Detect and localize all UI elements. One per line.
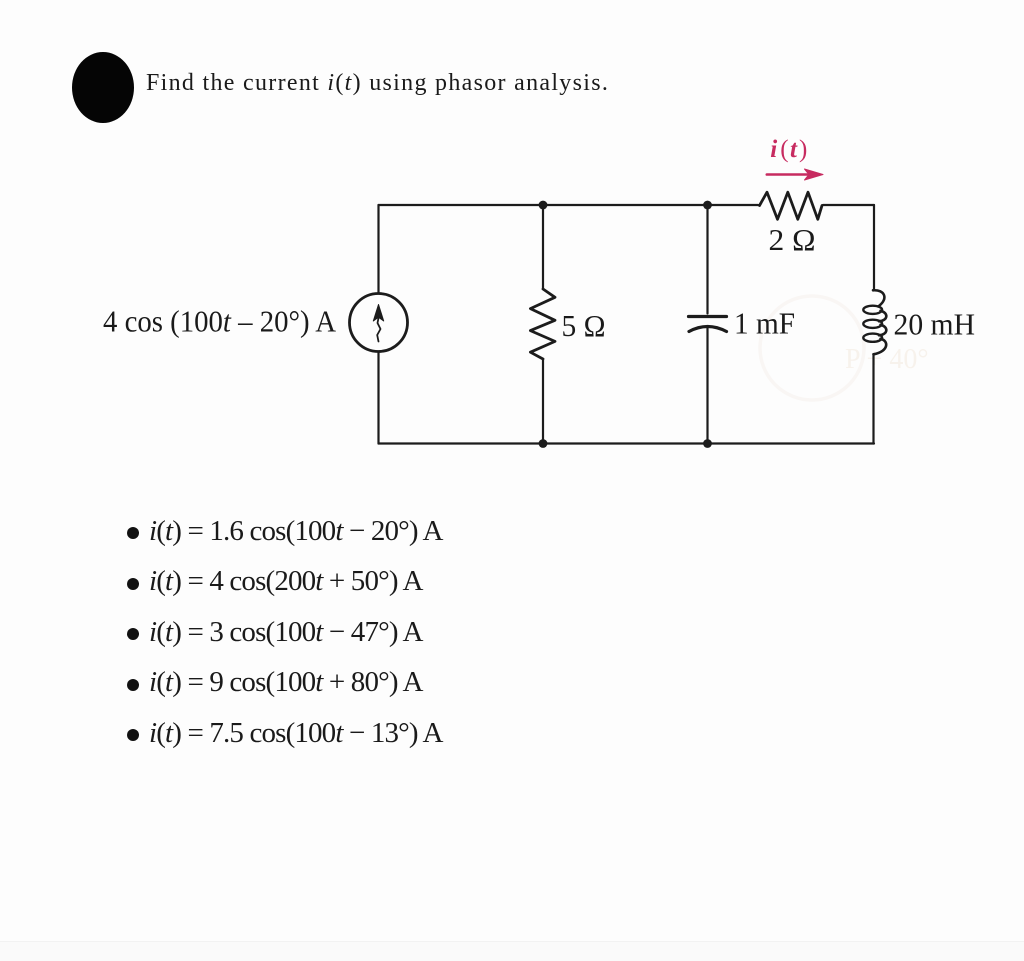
- inductor L1 loop ellipse 3: [863, 334, 882, 342]
- inductor L1 bump 4: [874, 339, 887, 355]
- wire top right (2ohm resistor to right corner): [823, 204, 874, 206]
- inductor L1 bump 1: [873, 290, 884, 306]
- wire left lower (source to bottom wire): [377, 352, 379, 444]
- inductor L1 bump 3: [879, 325, 886, 336]
- inductor L1 bump 2: [879, 311, 886, 322]
- current source arrow shaft with squiggle: [377, 318, 380, 342]
- title text: [146, 70, 609, 97]
- inductor L1 loop ellipse 1: [863, 306, 882, 314]
- junction node dot top-mid: [703, 201, 712, 210]
- current source arrow head: [373, 305, 383, 322]
- answer options list: [126, 0, 128, 1]
- capacitor C1 curved bottom plate: [689, 327, 727, 332]
- inductor L1 loop ellipse 2: [863, 320, 882, 328]
- resistor R2 2ohm zigzag: [760, 192, 823, 219]
- svg-text:i: i: [770, 136, 777, 163]
- option 2: [127, 565, 423, 598]
- current source I1 circle: [350, 294, 408, 352]
- wire capacitor branch upper: [706, 205, 708, 314]
- wire right branch lower (inductor to bottom): [872, 354, 874, 443]
- capacitor C1 top plate: [689, 315, 727, 318]
- wire bottom: [379, 442, 875, 444]
- faint bleed-through ghost circle: [760, 296, 864, 400]
- svg-text:20 mH: 20 mH: [894, 307, 976, 342]
- junction node dot top-left: [539, 201, 548, 210]
- option 4: [127, 666, 423, 699]
- wire top left (node to 2ohm resistor): [379, 204, 759, 206]
- label i(t) pink: [770, 136, 807, 163]
- svg-text:2 Ω: 2 Ω: [769, 222, 816, 257]
- redaction ellipse (problem number blot): [72, 52, 134, 123]
- svg-text:P + 40°: P + 40°: [845, 344, 929, 375]
- svg-text:): ): [799, 136, 807, 163]
- bottom faint strip: [0, 941, 1024, 961]
- wire 5ohm branch lower: [542, 359, 544, 444]
- wire 5ohm branch upper: [542, 205, 544, 289]
- svg-text:1 mF: 1 mF: [734, 306, 795, 341]
- resistor R1 5ohm zigzag: [530, 289, 555, 359]
- current direction arrow pink: [767, 173, 812, 176]
- option 1: [127, 515, 443, 548]
- svg-text:4 cos (100t – 20°) A: 4 cos (100t – 20°) A: [103, 304, 337, 339]
- option 5: [127, 717, 443, 750]
- wire capacitor branch lower: [706, 327, 708, 444]
- svg-text:t: t: [790, 136, 798, 163]
- junction node dot bottom-mid: [703, 439, 712, 448]
- option 3: [127, 616, 423, 649]
- wire left upper (top wire to source): [377, 205, 379, 294]
- wire right branch upper (to inductor): [873, 205, 875, 290]
- svg-text:5 Ω: 5 Ω: [562, 308, 606, 343]
- svg-text:(: (: [780, 136, 788, 163]
- junction node dot bottom-left: [539, 439, 548, 448]
